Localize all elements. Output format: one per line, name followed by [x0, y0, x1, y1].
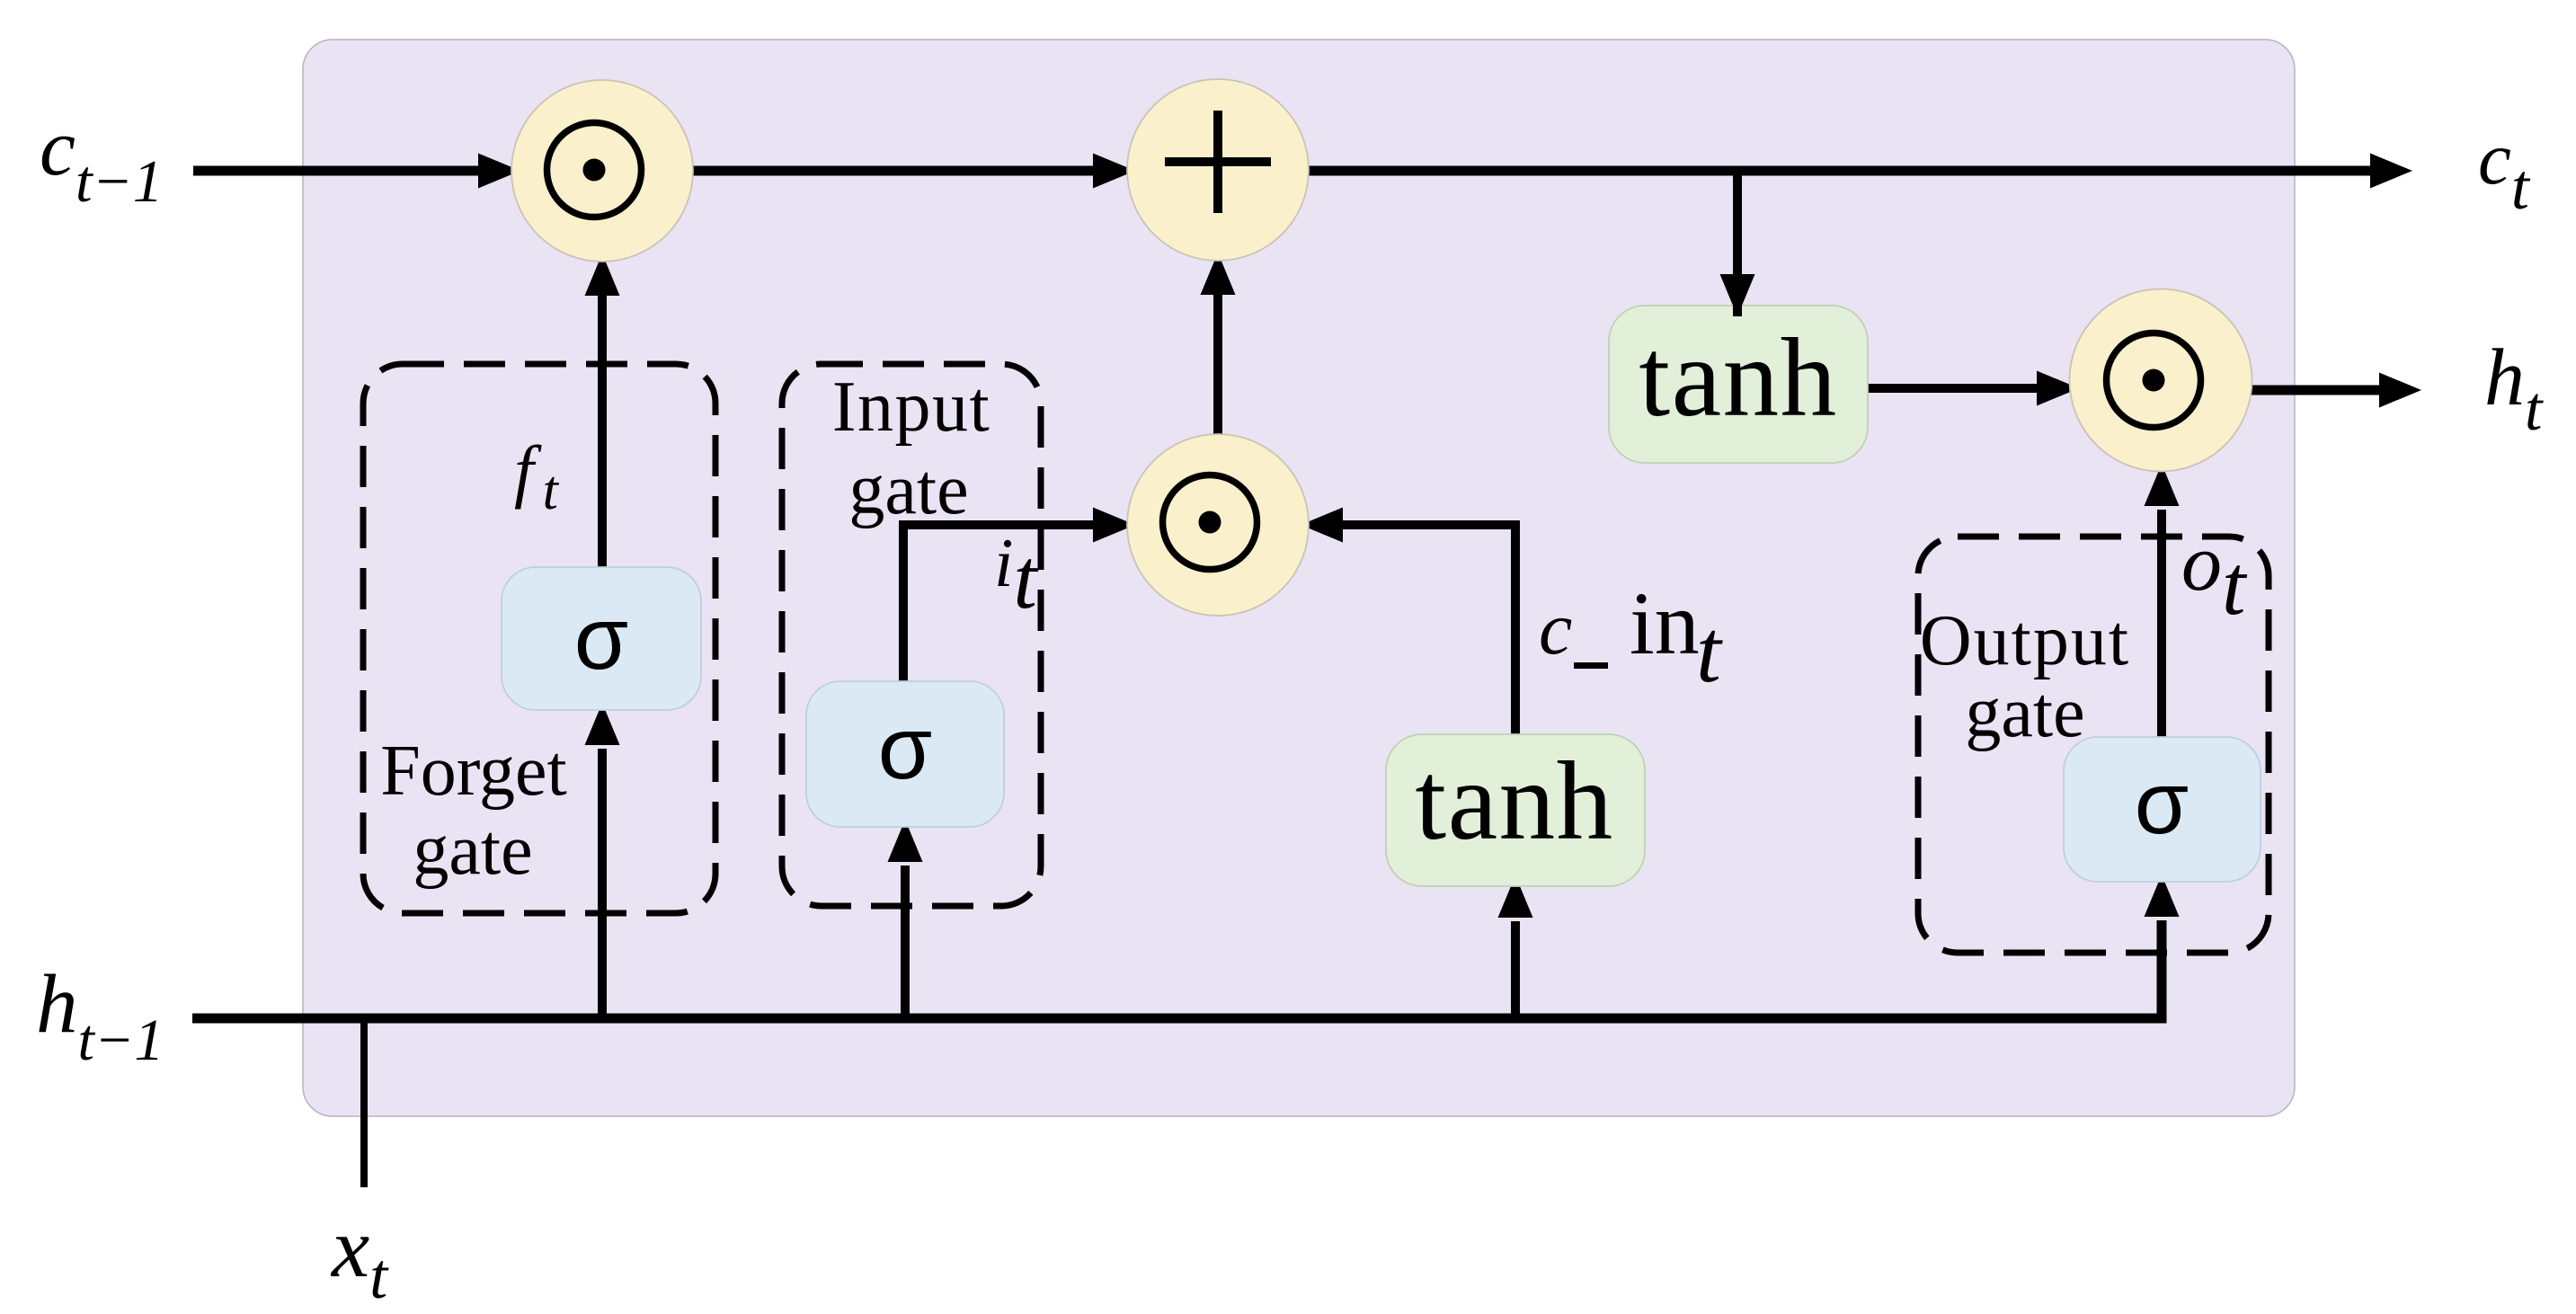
- svg-text:σ: σ: [2135, 753, 2189, 852]
- multiply node (middle): [1127, 434, 1309, 616]
- LSTM cell background: [303, 40, 2295, 1116]
- svg-text:Output: Output: [1920, 601, 2130, 680]
- wire output multiply node to h_t: [2252, 373, 2421, 408]
- forget gate dashed box: [363, 364, 715, 913]
- wire tanh to output multiply node: [1868, 371, 2079, 406]
- svg-text:Input: Input: [832, 368, 990, 447]
- svg-text:σ: σ: [574, 589, 628, 688]
- sigma box output: [2064, 737, 2261, 882]
- output gate dashed box: [1918, 537, 2269, 953]
- svg-text:t: t: [1696, 601, 1723, 701]
- tanh box top right: [1609, 306, 1868, 463]
- svg-text:c: c: [1539, 587, 1572, 670]
- wire c_in elbow from tanh to middle multiply: [1301, 508, 1515, 736]
- wire x_t up to h line: [360, 1018, 368, 1187]
- wire middle multiply node up to add node: [1201, 253, 1236, 434]
- wire add node to c_t output: [1309, 154, 2412, 189]
- wire c_{t-1} into multiply node: [193, 154, 520, 189]
- svg-text:Forget: Forget: [380, 732, 566, 811]
- sigma box forget: [502, 567, 701, 710]
- svg-text:ht: ht: [2484, 333, 2544, 444]
- wire h line up into input sigma: [888, 820, 923, 1018]
- multiply node (output): [2070, 289, 2252, 472]
- svg-text:gate: gate: [848, 450, 968, 529]
- svg-text:xt: xt: [330, 1200, 389, 1312]
- svg-text:σ: σ: [878, 698, 932, 797]
- wire o_t from output sigma up to output multiply: [2145, 464, 2180, 737]
- svg-text:ct: ct: [2478, 117, 2531, 223]
- wire f_t from sigma up to multiply node: [585, 253, 620, 567]
- wire branch down from c line into tanh (stub over box): [1720, 171, 1755, 316]
- add node: [1127, 79, 1309, 261]
- svg-text:tanh: tanh: [1639, 316, 1837, 440]
- wire i_t elbow from input sigma to middle multiply: [903, 508, 1135, 686]
- multiply node (forget): [511, 80, 693, 262]
- svg-text:ht−1: ht−1: [36, 958, 164, 1073]
- sigma box input: [806, 681, 1004, 827]
- svg-text:ct−1: ct−1: [40, 103, 163, 215]
- wire h line up into middle tanh: [1498, 875, 1533, 1018]
- input gate dashed box: [782, 364, 1041, 906]
- svg-text:gate: gate: [413, 811, 532, 890]
- tanh box middle: [1386, 734, 1645, 886]
- svg-text:gate: gate: [1965, 673, 2084, 752]
- svg-text:tanh: tanh: [1415, 740, 1613, 864]
- wire h line up into forget sigma: [585, 703, 620, 1018]
- wire h_{t-1} main line with elbow up into output sigma: [192, 875, 2180, 1018]
- svg-text:in: in: [1630, 573, 1700, 673]
- wire multiply node to add node: [693, 154, 1135, 189]
- label c_in_t: [1539, 573, 1723, 701]
